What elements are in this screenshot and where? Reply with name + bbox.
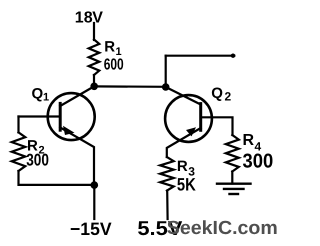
svg-text:−15V: −15V bbox=[70, 219, 112, 239]
svg-text:R: R bbox=[243, 132, 255, 149]
svg-text:1: 1 bbox=[43, 92, 49, 104]
svg-text:5K: 5K bbox=[177, 175, 196, 195]
svg-text:R: R bbox=[177, 158, 188, 175]
svg-text:Q: Q bbox=[32, 86, 44, 103]
svg-text:600: 600 bbox=[104, 57, 124, 74]
svg-text:R: R bbox=[104, 39, 115, 56]
svg-text:Q: Q bbox=[211, 85, 223, 102]
svg-text:V: V bbox=[92, 10, 103, 27]
svg-text:300: 300 bbox=[243, 150, 274, 172]
svg-text:SeekIC.com: SeekIC.com bbox=[167, 218, 278, 239]
svg-text:2: 2 bbox=[225, 90, 232, 104]
svg-text:300: 300 bbox=[26, 150, 49, 169]
svg-text:18: 18 bbox=[75, 10, 93, 27]
